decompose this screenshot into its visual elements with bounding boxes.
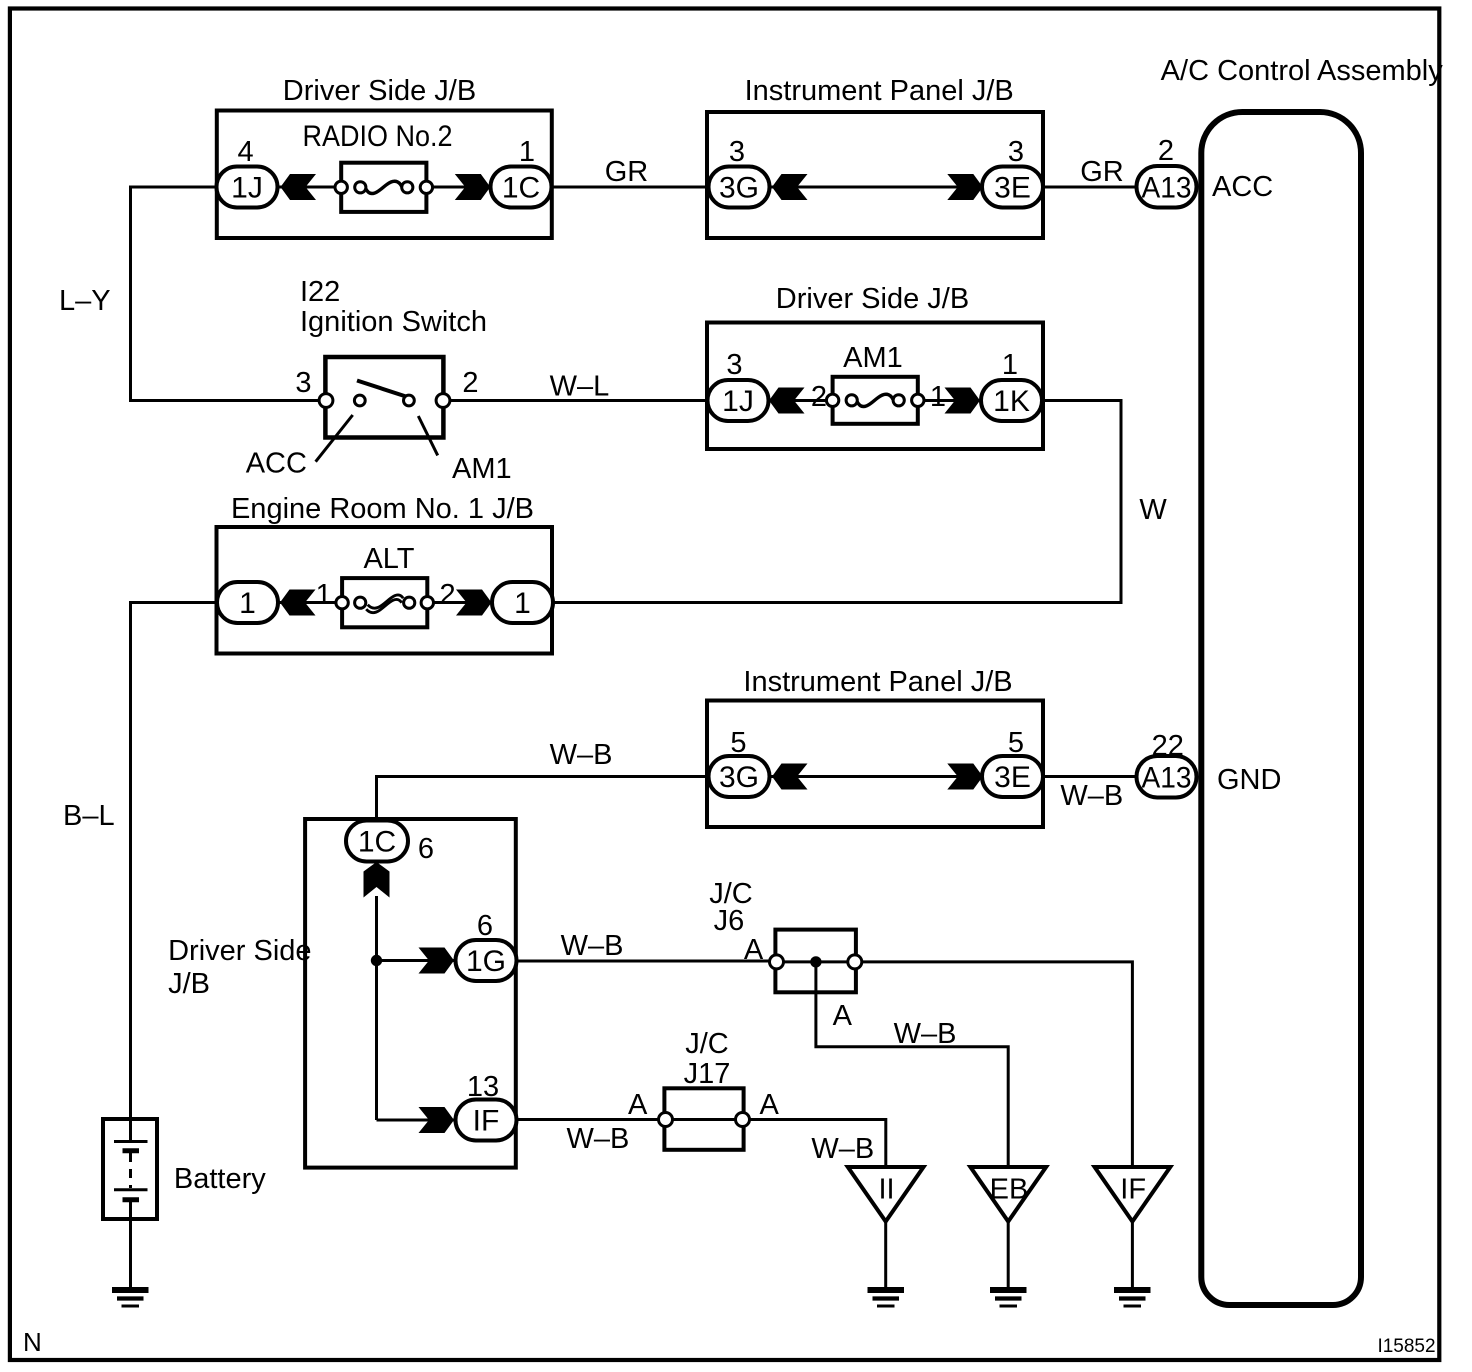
wire: inside J6 xyxy=(777,960,855,963)
svg-text:W–B: W–B xyxy=(811,1133,874,1165)
svg-text:1C: 1C xyxy=(358,826,396,859)
svg-text:2: 2 xyxy=(462,367,478,399)
wire: IF connector to J/C J17 (W-B) xyxy=(517,1118,666,1121)
label: Driver Side (lower box) xyxy=(168,935,311,967)
ground symbol (II) xyxy=(868,1290,905,1306)
svg-text:EB: EB xyxy=(990,1174,1029,1206)
svg-text:3: 3 xyxy=(1008,136,1024,168)
svg-text:A/C Control Assembly: A/C Control Assembly xyxy=(1161,55,1444,87)
svg-text:I22: I22 xyxy=(300,276,340,308)
connector 3E (pin 3) xyxy=(982,167,1043,208)
wire label W-B (to J17) xyxy=(566,1123,629,1155)
pin 1 label (1K) xyxy=(1002,349,1018,381)
junction block: Engine Room No. 1 J/B xyxy=(217,527,553,654)
svg-text:6: 6 xyxy=(418,833,434,865)
pin 2 label (ALT right) xyxy=(440,579,456,611)
arrow toward left 1 (Engine Room) xyxy=(280,590,316,616)
wire: inside Driver Side J/B (AM1) box xyxy=(768,399,982,402)
junction block: Instrument Panel J/B (lower) xyxy=(707,701,1043,828)
svg-text:1: 1 xyxy=(316,579,332,611)
svg-text:4: 4 xyxy=(238,136,254,168)
connector 1C (pin 6, lower) xyxy=(346,821,408,862)
arrow toward 1J xyxy=(281,174,317,200)
svg-text:13: 13 xyxy=(467,1071,499,1103)
wire: 1K down W run to Engine Room No.1 J/B xyxy=(553,401,1121,603)
connector A13 (pin 2, ACC) xyxy=(1137,166,1197,208)
label: J/B (lower box) xyxy=(168,968,210,1000)
connector 1J (pin 4) xyxy=(217,167,278,208)
arrow toward 1G xyxy=(419,948,455,974)
wire label W-B (1G to J6) xyxy=(561,930,624,962)
wire: bottom horizontal to IF arrow xyxy=(377,1119,457,1122)
pin 3 label (1J row2) xyxy=(726,349,742,381)
label A (below J6) xyxy=(833,1000,853,1032)
svg-text:1: 1 xyxy=(514,587,531,620)
connector 1C (pin 1) xyxy=(491,167,552,208)
svg-text:1: 1 xyxy=(519,136,535,168)
pin 22 label (A13 GND) xyxy=(1152,730,1184,762)
wire: vertical inside lower Driver Side J/B from 1C arrow down xyxy=(375,896,378,1120)
fuse RADIO No.2 xyxy=(335,163,433,212)
wire: Engine Room J/B left, down B-L run to battery xyxy=(131,603,218,1122)
wire: inside Instrument Panel J/B top box xyxy=(769,186,984,189)
svg-text:RADIO No.2: RADIO No.2 xyxy=(303,120,453,153)
wire label B-L xyxy=(63,800,115,832)
wire: inside Driver Side J/B top box xyxy=(277,186,491,189)
wire label W-L xyxy=(550,371,610,403)
wire label W-B (J17 to II) xyxy=(811,1133,874,1165)
svg-text:3: 3 xyxy=(726,349,742,381)
svg-text:J6: J6 xyxy=(714,905,745,937)
label: A/C Control Assembly xyxy=(1161,55,1444,87)
junction dot inside lower Driver Side J/B xyxy=(371,955,382,966)
connector 3E (pin 5) xyxy=(982,756,1043,797)
svg-text:22: 22 xyxy=(1152,730,1184,762)
wire: EB triangle to ground xyxy=(1007,1222,1010,1290)
label: AM1 fuse xyxy=(843,342,903,374)
battery xyxy=(103,1119,157,1219)
svg-text:Engine Room No. 1 J/B: Engine Room No. 1 J/B xyxy=(231,493,534,525)
label Battery xyxy=(174,1163,266,1195)
wire label W xyxy=(1139,494,1167,526)
connector A13 (pin 22, GND) xyxy=(1137,756,1197,798)
pin 2 label (A13) xyxy=(1158,135,1174,167)
wire label W-B (3G lower) xyxy=(550,739,613,771)
svg-text:Driver Side J/B: Driver Side J/B xyxy=(283,75,476,107)
svg-text:5: 5 xyxy=(730,727,746,759)
label A (left of J17) xyxy=(628,1089,648,1121)
arrow toward 3G (top) xyxy=(772,174,808,200)
svg-text:ACC: ACC xyxy=(246,448,307,480)
ignition switch blade xyxy=(357,381,406,397)
svg-text:1J: 1J xyxy=(722,385,754,418)
pin 13 label (IF) xyxy=(467,1071,499,1103)
wire: II triangle to ground xyxy=(884,1222,887,1290)
svg-text:A13: A13 xyxy=(1142,762,1192,795)
svg-text:Driver Side: Driver Side xyxy=(168,935,311,967)
wire label GR (left) xyxy=(605,156,649,188)
wire: battery negative to ground xyxy=(129,1217,132,1289)
wire: 1G to J/C J6 (W-B) xyxy=(517,960,777,963)
arrow up toward 1C xyxy=(364,862,390,898)
wire: 1J left, down L-Y run, to ignition switch pin 3 xyxy=(131,187,320,401)
svg-text:Ignition Switch: Ignition Switch xyxy=(300,306,487,338)
svg-text:W: W xyxy=(1139,494,1167,526)
svg-text:W–B: W–B xyxy=(561,930,624,962)
svg-text:B–L: B–L xyxy=(63,800,115,832)
pin 1 label (ALT left) xyxy=(316,579,332,611)
arrow toward 3E (top) xyxy=(947,174,983,200)
ignition switch I22 box xyxy=(325,357,443,438)
svg-text:A: A xyxy=(744,934,764,966)
svg-text:AM1: AM1 xyxy=(452,453,512,485)
ignition switch pin 3 terminal xyxy=(319,394,333,408)
label AM1 (switch contact) xyxy=(452,453,512,485)
svg-text:6: 6 xyxy=(477,910,493,942)
junction block: Driver Side J/B (AM1 row) xyxy=(707,323,1043,450)
svg-text:3E: 3E xyxy=(994,172,1031,205)
pin 6 label (1C) xyxy=(418,833,434,865)
wire: IF triangle to ground xyxy=(1131,1222,1134,1290)
svg-text:2: 2 xyxy=(1158,135,1174,167)
wire: inside Engine Room No.1 J/B box xyxy=(278,601,493,604)
svg-text:1J: 1J xyxy=(231,172,263,205)
wire: J6 center down to EB ground triangle (W-B) xyxy=(816,962,1008,1168)
pin 5 label (3G lower) xyxy=(730,727,746,759)
svg-text:W–B: W–B xyxy=(566,1123,629,1155)
pin 3 label (switch) xyxy=(295,367,311,399)
connector 1J (pin 3, AM1 row) xyxy=(708,380,769,421)
junction block: Driver Side J/B (lower) xyxy=(305,819,516,1168)
junction connector J17 xyxy=(659,1088,750,1150)
fusible link ALT xyxy=(336,578,434,627)
AM1 pointer line xyxy=(418,416,437,455)
connector 1 (right, Engine Room) xyxy=(492,582,553,623)
ground triangle IF xyxy=(1095,1167,1171,1222)
svg-text:GR: GR xyxy=(1080,156,1124,188)
arrow toward IF connector xyxy=(419,1107,455,1133)
connector IF (pin 13) xyxy=(456,1100,517,1141)
svg-text:1G: 1G xyxy=(466,945,506,978)
label ACC (A/C assembly) xyxy=(1212,171,1273,203)
pin 4 label xyxy=(238,136,254,168)
label GND xyxy=(1217,764,1281,796)
svg-text:N: N xyxy=(23,1327,42,1357)
svg-text:1: 1 xyxy=(239,587,256,620)
svg-text:1C: 1C xyxy=(502,172,540,205)
label: ALT fusible link xyxy=(363,543,414,575)
svg-text:Instrument Panel J/B: Instrument Panel J/B xyxy=(745,75,1014,107)
fuse AM1 xyxy=(826,377,924,424)
svg-text:5: 5 xyxy=(1008,727,1024,759)
svg-text:W–B: W–B xyxy=(894,1018,957,1050)
svg-text:A: A xyxy=(760,1089,780,1121)
pin 3 label (3G) xyxy=(729,136,745,168)
svg-text:Driver Side J/B: Driver Side J/B xyxy=(776,283,969,315)
connector 3G (pin 5) xyxy=(709,756,770,797)
wire: ignition switch pin 2 to 1J of Driver Side J/B xyxy=(450,399,709,402)
svg-text:J/C: J/C xyxy=(685,1028,729,1060)
wire label L-Y xyxy=(59,285,111,317)
arrow toward 1J (AM1 row) xyxy=(769,388,805,414)
label: RADIO No.2 xyxy=(303,120,453,153)
ignition switch ACC contact xyxy=(354,395,365,406)
svg-text:Instrument Panel J/B: Instrument Panel J/B xyxy=(743,666,1012,698)
wire: junction to 1G arrow xyxy=(377,959,457,962)
ignition switch pin 2 terminal xyxy=(436,394,450,408)
ground triangle II xyxy=(848,1167,924,1222)
svg-text:II: II xyxy=(878,1174,894,1206)
wire: inside J17 xyxy=(666,1118,743,1121)
connector 1K (pin 1) xyxy=(981,380,1042,421)
svg-text:1: 1 xyxy=(1002,349,1018,381)
svg-text:A: A xyxy=(628,1089,648,1121)
label J/C (J6) xyxy=(709,878,753,910)
svg-text:W–B: W–B xyxy=(550,739,613,771)
pin 5 label (3E lower) xyxy=(1008,727,1024,759)
svg-text:I15852: I15852 xyxy=(1377,1336,1435,1357)
pin 2 label (switch) xyxy=(462,367,478,399)
svg-text:1K: 1K xyxy=(993,385,1030,418)
pin 3 label (3E) xyxy=(1008,136,1024,168)
wire: 1C to 3G (GR) xyxy=(552,186,709,189)
arrow toward 1C xyxy=(455,174,491,200)
page label N xyxy=(23,1327,42,1357)
pin 6 label (1G) xyxy=(477,910,493,942)
svg-text:AM1: AM1 xyxy=(843,342,903,374)
label J6 xyxy=(714,905,745,937)
arrow toward right 1 (Engine Room) xyxy=(456,590,492,616)
label: Instrument Panel J/B (lower) xyxy=(743,666,1012,698)
connector 3G (pin 3) xyxy=(709,167,770,208)
svg-text:Battery: Battery xyxy=(174,1163,266,1195)
ground symbol (battery) xyxy=(112,1290,149,1306)
svg-text:J17: J17 xyxy=(684,1058,731,1090)
junction dot inside J6 xyxy=(810,956,821,967)
svg-text:W–L: W–L xyxy=(550,371,610,403)
connector 1 (left, Engine Room) xyxy=(217,582,278,623)
svg-text:GR: GR xyxy=(605,156,649,188)
svg-text:3: 3 xyxy=(295,367,311,399)
svg-text:2: 2 xyxy=(811,381,827,413)
wire: 3G of lower Instrument Panel J/B left and down to 1C xyxy=(377,777,709,823)
wire: J6 right to IF ground triangle xyxy=(862,962,1133,1168)
svg-text:ALT: ALT xyxy=(363,543,414,575)
label J/C (J17) xyxy=(685,1028,729,1060)
svg-text:J/B: J/B xyxy=(168,968,210,1000)
svg-text:1: 1 xyxy=(930,381,946,413)
svg-text:3G: 3G xyxy=(719,172,759,205)
svg-text:GND: GND xyxy=(1217,764,1281,796)
pin 1 label (AM1 right) xyxy=(930,381,946,413)
svg-text:3E: 3E xyxy=(994,761,1031,794)
wire label GR (right) xyxy=(1080,156,1124,188)
svg-text:IF: IF xyxy=(1120,1174,1146,1206)
svg-text:W–B: W–B xyxy=(1060,780,1123,812)
svg-text:2: 2 xyxy=(440,579,456,611)
ACC pointer line xyxy=(316,415,353,462)
label: Driver Side J/B (AM1 row) xyxy=(776,283,969,315)
wire: 3E to A13 (GR) xyxy=(1042,186,1137,189)
svg-text:3: 3 xyxy=(729,136,745,168)
svg-text:3G: 3G xyxy=(719,761,759,794)
label ACC (switch contact) xyxy=(246,448,307,480)
svg-text:ACC: ACC xyxy=(1212,171,1273,203)
figure number I15852 xyxy=(1377,1336,1435,1357)
wire: 3E to A13 GND (W-B) xyxy=(1042,775,1137,778)
connector 1G (pin 6) xyxy=(456,940,517,981)
label: Instrument Panel J/B (top) xyxy=(745,75,1014,107)
label J17 xyxy=(684,1058,731,1090)
arrow toward 1K xyxy=(945,388,981,414)
label A (left of J6) xyxy=(744,934,764,966)
wire: inside lower Instrument Panel J/B box xyxy=(769,775,984,778)
junction connector J6 xyxy=(770,930,862,993)
label: Driver Side J/B (top) xyxy=(283,75,476,107)
A/C Control Assembly outline xyxy=(1201,112,1361,1305)
arrow toward 3E (lower) xyxy=(947,764,983,790)
svg-text:A: A xyxy=(833,1000,853,1032)
label: Engine Room No. 1 J/B xyxy=(231,493,534,525)
label A (right of J17) xyxy=(760,1089,780,1121)
pin 2 label (AM1 left) xyxy=(811,381,827,413)
ignition switch AM1 contact xyxy=(404,395,415,406)
arrow toward 3G (lower) xyxy=(772,764,808,790)
junction block: Instrument Panel J/B (top) xyxy=(707,112,1043,238)
ground symbol (EB) xyxy=(990,1290,1027,1306)
ground triangle EB xyxy=(970,1167,1046,1222)
svg-text:A13: A13 xyxy=(1142,172,1192,205)
junction block: Driver Side J/B (top) xyxy=(217,111,552,239)
wire label W-B (A13 GND) xyxy=(1060,780,1123,812)
pin 1 label (1C) xyxy=(519,136,535,168)
label Ignition Switch xyxy=(300,306,487,338)
label I22 xyxy=(300,276,340,308)
svg-text:L–Y: L–Y xyxy=(59,285,111,317)
wire label W-B (J6 to EB) xyxy=(894,1018,957,1050)
svg-text:IF: IF xyxy=(473,1105,500,1138)
wire: J17 right to II ground triangle (W-B) xyxy=(750,1120,886,1169)
ground symbol (IF) xyxy=(1114,1290,1151,1306)
